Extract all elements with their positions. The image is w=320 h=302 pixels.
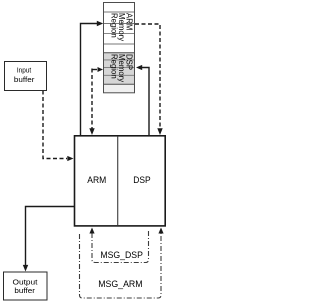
svg-text:buffer: buffer [14,75,35,84]
svg-text:DSP: DSP [133,175,150,185]
svg-text:Input: Input [17,66,31,75]
svg-text:Region: Region [110,54,119,79]
svg-text:MSG_ARM: MSG_ARM [98,279,142,289]
svg-text:Region: Region [110,13,119,38]
svg-text:ARM: ARM [87,175,106,185]
svg-text:buffer: buffer [14,286,35,295]
svg-text:MSG_DSP: MSG_DSP [100,250,143,260]
